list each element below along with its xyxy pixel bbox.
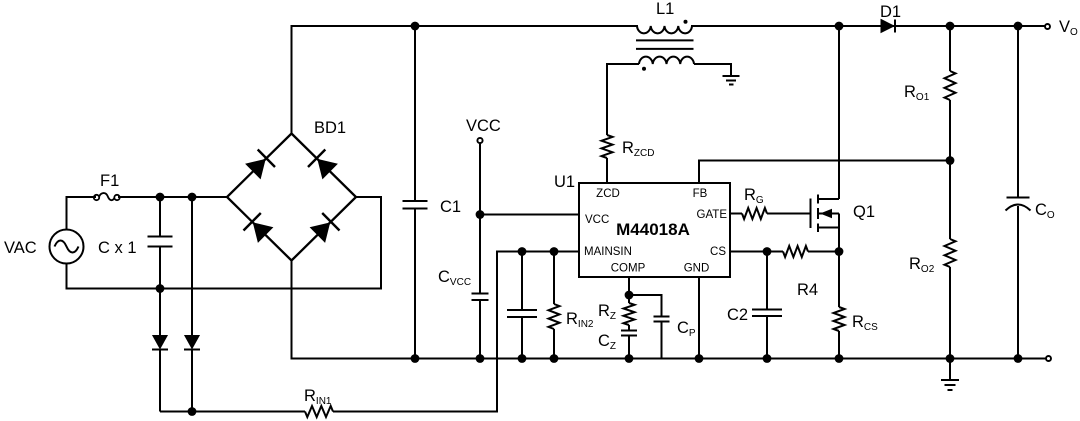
ground (L1 secondary)	[723, 76, 740, 85]
svg-text:C1: C1	[440, 198, 461, 216]
svg-text:RG: RG	[744, 186, 764, 206]
op-amp U1 chip M44018A	[579, 183, 730, 277]
svg-text:FB: FB	[693, 188, 708, 200]
wire COMP pin down	[628, 277, 630, 295]
wire top rail from bridge top to L1	[292, 26, 638, 134]
wire VCC vertical	[479, 143, 481, 293]
node rail filter cap	[518, 354, 527, 363]
capacitor CO	[1006, 26, 1031, 359]
svg-text:RIN1: RIN1	[304, 387, 332, 407]
bridge rectifier BD1	[227, 134, 356, 261]
resistor RCS	[834, 252, 845, 359]
node diode2 top	[188, 193, 197, 202]
node VCC terminal	[477, 138, 482, 143]
node FB divider junction	[946, 156, 955, 165]
svg-text:GND: GND	[684, 263, 710, 275]
svg-text:F1: F1	[100, 172, 119, 190]
node rail CZ	[625, 354, 634, 363]
capacitor CIN (mains filter)	[507, 252, 537, 359]
svg-text:RZCD: RZCD	[622, 139, 654, 159]
node Cx1 bottom	[156, 284, 165, 293]
wire bottom ground rail	[292, 358, 1046, 360]
svg-text:CZ: CZ	[598, 332, 616, 352]
svg-text:M44018A: M44018A	[616, 220, 690, 239]
svg-text:Q1: Q1	[853, 203, 875, 221]
resistor RZCD	[602, 135, 613, 158]
svg-text:RCS: RCS	[852, 313, 878, 333]
node VCC junction	[476, 210, 485, 219]
wire R4 to Q1 source	[808, 251, 839, 253]
resistor R4	[783, 246, 808, 257]
node Vo terminal	[1045, 24, 1050, 29]
wire RIN1 to diodes	[160, 411, 305, 413]
svg-text:R4: R4	[797, 281, 818, 299]
node rail CO	[1014, 354, 1023, 363]
node rail C2	[763, 354, 772, 363]
node phase dot secondary	[642, 67, 646, 71]
node diodes bottom	[188, 407, 197, 416]
svg-text:CVCC: CVCC	[438, 268, 471, 288]
resistor RIN2	[549, 252, 560, 359]
svg-text:MAINSIN: MAINSIN	[584, 246, 632, 258]
resistor RG	[742, 208, 767, 219]
capacitor CVCC	[472, 294, 489, 359]
node CO top	[1014, 22, 1023, 31]
svg-text:CS: CS	[710, 246, 726, 258]
node RO1 top	[946, 22, 955, 31]
capacitor CZ	[621, 325, 637, 359]
svg-text:COMP: COMP	[611, 263, 646, 275]
transistor Q1	[811, 26, 840, 252]
resistor RIN1	[305, 406, 333, 417]
wire secondary right to ground	[694, 64, 731, 76]
resistor RZ	[624, 295, 635, 325]
node phase dot primary	[684, 20, 688, 24]
node Q1 drain top	[835, 22, 844, 31]
wire RZCD to chip ZCD pin	[606, 158, 608, 183]
fuse F1	[94, 193, 120, 200]
wire GATE to RG	[730, 213, 742, 215]
inductor L1 (coupled)	[636, 26, 694, 64]
wire VCC to chip pin	[480, 214, 579, 216]
node rail divider	[946, 354, 955, 363]
svg-text:BD1: BD1	[314, 119, 346, 137]
diode DL1 (left input diode)	[152, 289, 168, 412]
node rail RCS	[835, 354, 844, 363]
svg-text:RIN2: RIN2	[566, 310, 594, 330]
node rail C1	[411, 354, 420, 363]
wire bridge bottom to ground rail	[291, 261, 293, 359]
svg-text:VO: VO	[1059, 18, 1078, 38]
node rail CVCC	[476, 354, 485, 363]
svg-text:L1: L1	[656, 0, 674, 18]
wire RG to Q1 gate	[767, 213, 811, 215]
node C1 top	[411, 22, 420, 31]
svg-text:VCC: VCC	[585, 214, 609, 226]
node RIN2 top	[550, 247, 559, 256]
node Q1 source junction	[835, 247, 844, 256]
wire secondary left to RZCD	[607, 64, 639, 135]
diode D1	[881, 20, 895, 33]
svg-text:RO2: RO2	[909, 255, 935, 275]
svg-text:RO1: RO1	[904, 83, 930, 103]
wire FB to divider	[699, 161, 950, 184]
svg-text:ZCD: ZCD	[596, 188, 620, 200]
node rail RIN2	[550, 354, 559, 363]
resistor RO1	[945, 26, 956, 161]
svg-text:CO: CO	[1035, 201, 1055, 221]
node rail GND pin	[695, 354, 704, 363]
node Cx1 top	[156, 193, 165, 202]
capacitor C2	[752, 252, 782, 359]
node COMP junction	[625, 291, 634, 300]
wire GND pin down	[698, 277, 700, 359]
ground (output divider)	[941, 359, 959, 391]
diode DL2 (right input diode)	[184, 197, 200, 412]
wire top rail from L1 to Vo terminal	[692, 25, 1044, 27]
wire VAC bottom to bridge right side	[67, 197, 382, 289]
capacitor C x 1	[148, 197, 173, 289]
wire CS to R4	[730, 251, 783, 253]
svg-text:VAC: VAC	[4, 239, 37, 257]
capacitor CP	[629, 295, 670, 359]
node CS-C2 junction	[763, 247, 772, 256]
svg-text:CP: CP	[677, 319, 696, 339]
svg-text:GATE: GATE	[697, 209, 728, 221]
svg-text:C2: C2	[727, 306, 748, 324]
wire VAC top to fuse and bridge left	[67, 197, 96, 230]
svg-text:C x 1: C x 1	[98, 239, 137, 257]
svg-text:RZ: RZ	[598, 302, 616, 322]
svg-text:U1: U1	[554, 173, 575, 191]
arrow Q1 body	[820, 209, 832, 218]
capacitor C1	[403, 26, 428, 359]
wire fuse to bridge left vertex	[119, 196, 227, 198]
resistor RO2	[945, 161, 956, 359]
node ground return terminal	[1046, 356, 1051, 361]
svg-text:D1: D1	[880, 3, 901, 21]
svg-text:VCC: VCC	[466, 117, 501, 135]
source VAC	[50, 230, 84, 264]
wire MAINSIN to RIN1	[333, 252, 579, 412]
node mains filter top	[518, 247, 527, 256]
